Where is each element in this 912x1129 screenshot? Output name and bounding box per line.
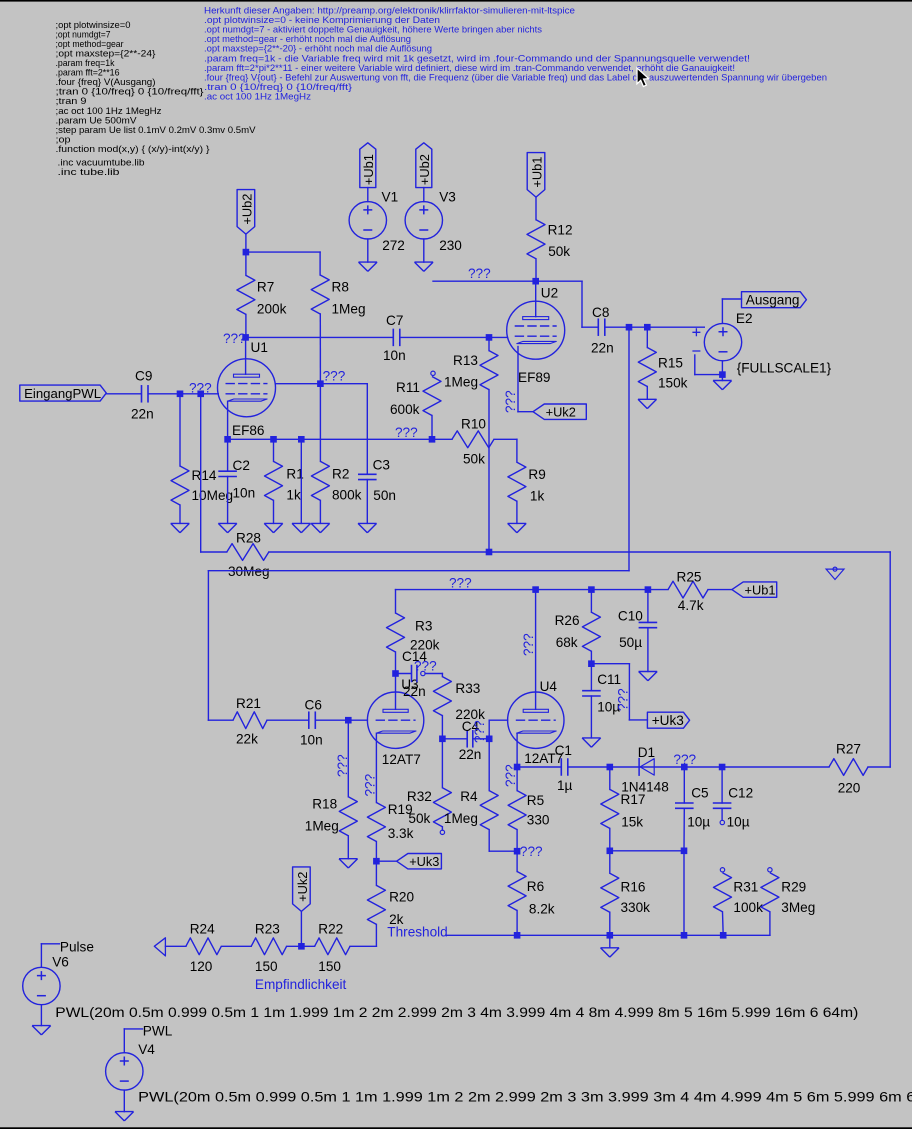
wire U3 anode — [395, 674, 397, 710]
svg-text:330: 330 — [527, 813, 550, 828]
resistor R19 — [367, 803, 385, 842]
net flag +Uk2 (U2 cathode) — [533, 404, 586, 419]
wire +Uk3 branch — [591, 663, 629, 665]
svg-text:???: ??? — [449, 576, 472, 591]
svg-text:R23: R23 — [255, 922, 280, 937]
svg-text:+Uk2: +Uk2 — [295, 872, 310, 902]
junction — [514, 848, 521, 855]
junction — [514, 764, 521, 771]
svg-text:R9: R9 — [528, 467, 545, 482]
resistor R14 — [179, 394, 181, 466]
svg-text:R8: R8 — [332, 280, 349, 295]
top window border — [0, 0, 912, 2]
resistor R29 — [761, 873, 779, 912]
svg-text:R4: R4 — [460, 789, 478, 804]
junction — [588, 586, 595, 593]
junction — [298, 943, 305, 950]
wire — [246, 251, 320, 253]
wire — [367, 188, 369, 202]
wire — [535, 197, 537, 220]
voltage source V3 — [405, 202, 442, 239]
svg-text:3.3k: 3.3k — [388, 826, 414, 841]
ground — [339, 859, 358, 868]
svg-text:C7: C7 — [386, 313, 403, 328]
ground — [218, 523, 237, 532]
ground — [639, 672, 658, 681]
wire U3 cathode — [375, 733, 377, 802]
svg-text:10Meg: 10Meg — [192, 488, 234, 503]
junction — [720, 932, 727, 939]
resistor R10 — [452, 431, 494, 448]
svg-text:272: 272 — [382, 238, 405, 253]
svg-text:???: ??? — [395, 425, 418, 440]
header directive text block (left) — [56, 19, 257, 177]
junction — [197, 391, 204, 398]
svg-text:Empfindlichkeit: Empfindlichkeit — [255, 977, 347, 992]
wire — [423, 188, 425, 202]
svg-text:???: ??? — [414, 658, 437, 673]
svg-text:PWL(20m 0.5m 0.999 0.5m 1 1m 1: PWL(20m 0.5m 0.999 0.5m 1 1m 1.999 1m 2 … — [138, 1090, 912, 1105]
resistor R28 — [201, 551, 227, 553]
svg-text:22n: 22n — [131, 407, 154, 422]
capacitor C2 — [227, 439, 229, 471]
svg-text:1Meg: 1Meg — [332, 302, 366, 317]
wire — [488, 720, 490, 739]
svg-text:15k: 15k — [621, 815, 643, 830]
wire — [722, 298, 741, 300]
header comment text block (right) — [204, 5, 827, 102]
svg-text:4.7k: 4.7k — [678, 598, 704, 613]
ground — [115, 1112, 134, 1121]
junction — [588, 660, 595, 667]
ground — [171, 523, 190, 532]
mouse cursor — [637, 68, 649, 87]
capacitor C5 — [683, 767, 685, 803]
wire E2 control loop — [694, 355, 696, 375]
resistor R6 — [516, 851, 518, 871]
wire — [721, 299, 723, 323]
svg-text:C8: C8 — [592, 305, 609, 320]
ground — [311, 523, 330, 532]
svg-text:R22: R22 — [318, 922, 343, 937]
svg-text:50k: 50k — [463, 452, 485, 467]
tube U2 EF89 — [507, 301, 565, 359]
wire — [350, 945, 376, 947]
capacitor C10 — [647, 590, 649, 623]
junction — [439, 736, 446, 743]
wire — [319, 252, 321, 275]
wire — [40, 1005, 42, 1026]
ground — [415, 262, 434, 271]
floating marker — [826, 569, 844, 579]
resistor R12 — [527, 220, 545, 259]
svg-text:230: 230 — [439, 238, 462, 253]
net flag +Ub1 (R25) — [732, 582, 777, 597]
resistor R4 — [488, 739, 490, 791]
svg-text:120: 120 — [190, 959, 213, 974]
capacitor C8 — [597, 318, 599, 336]
svg-text:50µ: 50µ — [619, 635, 642, 650]
svg-text:Ausgang: Ausgang — [746, 293, 800, 308]
junction — [607, 764, 614, 771]
net flag +Ub2 (above R7) — [237, 190, 255, 235]
svg-text:V6: V6 — [52, 955, 69, 970]
wire — [317, 719, 368, 721]
svg-text:V4: V4 — [138, 1042, 155, 1057]
wire — [606, 326, 705, 328]
svg-text:+Uk2: +Uk2 — [546, 405, 576, 420]
svg-text:R33: R33 — [455, 681, 480, 696]
wire U2 grid — [489, 336, 508, 338]
svg-text:22n: 22n — [591, 341, 614, 356]
wire — [581, 281, 583, 327]
voltage source V4 — [106, 1053, 143, 1090]
resistor R22 — [315, 938, 350, 955]
svg-text:R25: R25 — [677, 570, 702, 585]
svg-text:600k: 600k — [390, 402, 420, 417]
junction — [486, 549, 493, 556]
svg-text:EF89: EF89 — [518, 370, 551, 385]
svg-text:???: ??? — [673, 752, 696, 767]
net flag +Ub1 (above R12) — [527, 153, 545, 198]
junction — [345, 717, 352, 724]
rail B+ row — [396, 589, 669, 591]
tube U3 12AT7 — [367, 692, 423, 748]
svg-text:???: ??? — [503, 764, 518, 787]
svg-text:1µ: 1µ — [557, 778, 573, 793]
net flag +Uk2 (R22/R23) — [293, 867, 311, 912]
capacitor C1 — [560, 758, 562, 776]
svg-text:R15: R15 — [658, 356, 683, 371]
wire — [166, 945, 186, 947]
svg-text:R20: R20 — [389, 890, 414, 905]
resistor R32 — [433, 788, 451, 827]
wire — [376, 860, 396, 862]
svg-text:22n: 22n — [403, 684, 426, 699]
svg-text:.function mod(x,y) { (x/y)-int: .function mod(x,y) { (x/y)-int(x/y) } — [56, 143, 210, 154]
svg-text:R27: R27 — [836, 742, 861, 757]
resistor R25 — [668, 581, 708, 598]
junction — [514, 932, 521, 939]
junction — [224, 436, 231, 443]
junction — [645, 586, 652, 593]
svg-text:???: ??? — [323, 369, 346, 384]
svg-text:+Ub2: +Ub2 — [417, 154, 432, 185]
wire U1 cathode — [227, 401, 229, 439]
junction — [719, 371, 726, 378]
resistor R24 — [186, 938, 221, 955]
wire — [425, 673, 442, 675]
capacitor C12 — [721, 767, 723, 803]
svg-text:R7: R7 — [257, 280, 274, 295]
svg-text:C3: C3 — [373, 458, 390, 473]
resistor R31 — [714, 873, 732, 912]
wire — [889, 552, 891, 767]
svg-text:50k: 50k — [548, 244, 570, 259]
svg-text:???: ??? — [503, 390, 518, 413]
resistor R1 — [273, 439, 275, 461]
svg-text:EingangPWL: EingangPWL — [24, 386, 101, 401]
junction — [681, 848, 688, 855]
wire C1 row — [517, 766, 561, 768]
svg-text:30Meg: 30Meg — [228, 564, 270, 579]
ground — [638, 399, 657, 408]
resistor R21 — [208, 719, 233, 721]
wire — [433, 280, 582, 282]
svg-text:R14: R14 — [192, 468, 217, 483]
svg-text:68k: 68k — [556, 635, 578, 650]
resistor R8 — [311, 275, 329, 314]
net flag EingangPWL — [20, 385, 107, 401]
wire (to R28) — [200, 394, 202, 552]
svg-text:E2: E2 — [736, 311, 753, 326]
wire U2 cathode — [517, 347, 519, 412]
net flag +Uk3 (right) — [647, 712, 689, 728]
svg-text:R6: R6 — [527, 879, 544, 894]
junction — [270, 436, 277, 443]
wire — [516, 439, 518, 462]
svg-text:PWL(20m 0.5m 0.999 0.5m 1 1m 1: PWL(20m 0.5m 0.999 0.5m 1 1m 1.999 1m 2 … — [55, 1005, 858, 1020]
wire — [721, 361, 723, 381]
svg-text:C5: C5 — [691, 786, 708, 801]
capacitor C4 — [442, 738, 467, 740]
junction — [719, 764, 726, 771]
svg-text:???: ??? — [520, 844, 543, 859]
junction — [607, 932, 614, 939]
svg-text:10µ: 10µ — [727, 815, 750, 830]
svg-text:50k: 50k — [408, 811, 430, 826]
svg-text:R10: R10 — [461, 417, 486, 432]
junction — [242, 334, 249, 341]
ground — [713, 381, 732, 390]
wire — [494, 438, 517, 440]
ground — [292, 523, 311, 532]
wire — [320, 383, 367, 385]
wire — [123, 1090, 125, 1112]
svg-text:R26: R26 — [555, 613, 580, 628]
svg-text:???: ??? — [363, 773, 378, 796]
wire — [401, 336, 489, 338]
svg-text:+Ub1: +Ub1 — [361, 154, 376, 185]
junction — [486, 736, 493, 743]
resistor R7 — [245, 252, 247, 275]
ground — [264, 523, 283, 532]
svg-text:C1: C1 — [555, 743, 572, 758]
svg-text:3Meg: 3Meg — [781, 900, 815, 915]
wire Threshold row — [446, 934, 770, 936]
wire — [610, 850, 684, 852]
svg-text:R3: R3 — [415, 619, 432, 634]
ground — [359, 262, 378, 271]
net flag +Uk3 (R19 foot) — [397, 854, 442, 869]
junction — [486, 334, 493, 341]
svg-text:R28: R28 — [236, 531, 261, 546]
wire U4 grid — [489, 719, 507, 721]
svg-text:U2: U2 — [541, 286, 558, 301]
ground — [508, 523, 527, 532]
svg-text:U1: U1 — [251, 340, 268, 355]
wire — [582, 326, 598, 328]
net flag +Ub1 (above V1) — [360, 143, 376, 188]
svg-text:R16: R16 — [621, 880, 646, 895]
wire (gnd drop) — [300, 439, 302, 523]
svg-text:1Meg: 1Meg — [305, 819, 339, 834]
svg-text:22n: 22n — [459, 747, 482, 762]
wire — [221, 945, 251, 947]
ground — [32, 1026, 51, 1035]
resistor R5 — [516, 767, 518, 791]
resistor R11 — [423, 377, 441, 416]
wire anode row — [246, 336, 393, 338]
resistor R15 — [646, 327, 648, 347]
svg-text:D1: D1 — [638, 745, 655, 760]
svg-text:R2: R2 — [332, 467, 349, 482]
wire cathode row — [228, 438, 452, 440]
svg-text:12AT7: 12AT7 — [382, 752, 421, 767]
resistor R16 — [609, 851, 611, 873]
svg-text:V1: V1 — [382, 190, 399, 205]
wire U4 cathode — [516, 733, 518, 767]
svg-text:R31: R31 — [733, 880, 758, 895]
svg-text:???: ??? — [616, 688, 631, 711]
wire — [149, 393, 218, 395]
wire feedback — [628, 327, 630, 571]
junction — [243, 249, 250, 256]
wire — [287, 945, 315, 947]
resistor R13 — [488, 337, 490, 350]
svg-text:8.2k: 8.2k — [529, 902, 555, 917]
svg-text:22k: 22k — [236, 732, 258, 747]
svg-text:1Meg: 1Meg — [444, 811, 478, 826]
wire — [423, 239, 425, 262]
junction — [317, 380, 324, 387]
wire — [568, 766, 829, 768]
svg-text:1Meg: 1Meg — [444, 375, 478, 390]
svg-text:{FULLSCALE1}: {FULLSCALE1} — [737, 361, 832, 376]
svg-text:330k: 330k — [621, 900, 651, 915]
junction — [607, 848, 614, 855]
capacitor C11 — [590, 664, 592, 691]
voltage source V6 — [23, 967, 60, 1004]
svg-text:10n: 10n — [233, 486, 256, 501]
junction — [298, 436, 305, 443]
svg-text:.ac oct 100 1Hz 1MegHz: .ac oct 100 1Hz 1MegHz — [204, 90, 311, 101]
junction — [644, 324, 651, 331]
junction — [392, 670, 399, 677]
tube U4 12AT7 — [508, 692, 564, 748]
capacitor C6 — [308, 711, 310, 729]
junction — [532, 586, 539, 593]
wire — [367, 239, 369, 262]
svg-text:U4: U4 — [540, 679, 558, 694]
svg-text:EF86: EF86 — [232, 423, 265, 438]
svg-text:10n: 10n — [300, 733, 323, 748]
junction — [177, 391, 184, 398]
junction — [626, 324, 633, 331]
arrow flag (left) — [154, 938, 165, 956]
capacitor C7 — [392, 329, 394, 347]
svg-text:R11: R11 — [396, 380, 420, 395]
wire — [124, 1028, 142, 1030]
svg-text:C10: C10 — [618, 609, 643, 624]
svg-text:???: ??? — [472, 720, 487, 743]
svg-text:R24: R24 — [190, 922, 215, 937]
svg-text:Pulse: Pulse — [60, 940, 94, 955]
wire — [106, 393, 140, 395]
svg-text:R32: R32 — [407, 789, 432, 804]
resistor R9 — [508, 462, 526, 501]
svg-text:50n: 50n — [373, 488, 396, 503]
svg-text:150: 150 — [255, 959, 278, 974]
source E2 — [704, 323, 741, 360]
svg-text:+Uk3: +Uk3 — [409, 854, 439, 869]
wire — [489, 850, 517, 852]
net flag +Ub2 (above V3) — [416, 143, 432, 188]
net flag Ausgang — [742, 292, 807, 308]
svg-text:V3: V3 — [439, 190, 456, 205]
ground — [582, 738, 601, 747]
svg-text:10n: 10n — [383, 348, 406, 363]
resistor R20 — [375, 861, 377, 885]
svg-text:150k: 150k — [658, 376, 688, 391]
svg-text:+Uk3: +Uk3 — [652, 713, 684, 728]
svg-text:???: ??? — [521, 633, 536, 656]
capacitor C3 — [358, 473, 377, 475]
svg-text:???: ??? — [468, 266, 491, 281]
wire U1 anode — [245, 337, 247, 374]
voltage source V1 — [349, 202, 386, 239]
svg-text:10µ: 10µ — [687, 815, 710, 830]
svg-text:800k: 800k — [332, 488, 362, 503]
wire — [366, 480, 368, 524]
svg-text:C9: C9 — [135, 369, 152, 384]
wire — [41, 943, 59, 945]
wire — [609, 935, 611, 948]
svg-text:+Ub2: +Ub2 — [240, 194, 255, 225]
svg-text:1k: 1k — [286, 488, 301, 503]
svg-text:Threshold: Threshold — [387, 925, 447, 940]
resistor R23 — [251, 938, 286, 955]
junction — [429, 436, 436, 443]
svg-text:R5: R5 — [527, 793, 544, 808]
wire U2 anode — [535, 281, 537, 316]
wire — [366, 384, 368, 475]
capacitor C14 — [396, 673, 411, 675]
svg-text:R12: R12 — [548, 223, 573, 238]
wire U1 g2 — [275, 383, 320, 385]
svg-text:150: 150 — [318, 959, 341, 974]
diode D1 1N4148 — [638, 758, 640, 776]
wire U4 anode — [535, 590, 537, 710]
svg-text:R21: R21 — [236, 696, 261, 711]
svg-text:1k: 1k — [530, 489, 545, 504]
ground — [601, 948, 620, 957]
svg-text:220: 220 — [838, 781, 861, 796]
resistor R26 — [590, 590, 592, 613]
wire — [300, 911, 302, 946]
svg-text:C2: C2 — [233, 458, 250, 473]
svg-text:R29: R29 — [781, 880, 806, 895]
svg-text:R13: R13 — [453, 353, 478, 368]
bottom window border — [0, 1127, 912, 1129]
ground — [358, 523, 377, 532]
resistor R27 — [829, 759, 868, 776]
wire — [683, 851, 685, 936]
svg-text:100k: 100k — [733, 900, 763, 915]
svg-text:C11: C11 — [597, 672, 621, 687]
resistor R18 — [347, 720, 349, 797]
svg-text:200k: 200k — [257, 302, 287, 317]
